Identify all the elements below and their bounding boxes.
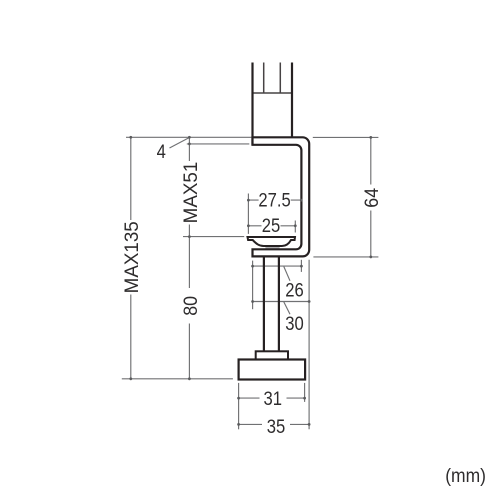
dimension line MAX51 / 80 [188, 137, 190, 378]
svg-text:25: 25 [262, 213, 280, 236]
foot step [256, 351, 288, 359]
dimension end dots [129, 136, 372, 426]
screw shaft [264, 255, 279, 352]
dimension line 27.5 [248, 199, 301, 201]
svg-text:(mm): (mm) [445, 464, 486, 486]
dimension extension line: foot bottom (left) [122, 378, 233, 380]
svg-text:MAX51: MAX51 [180, 162, 202, 224]
leader line for 30 [284, 302, 290, 314]
dimension line 31 [239, 397, 305, 399]
dimension extension line: foot left [238, 383, 240, 429]
pole inner detail lines [264, 63, 281, 94]
dimension extension line: clamp top surface (left) [126, 136, 252, 138]
dimension line MAX135 [130, 137, 132, 378]
svg-text:35: 35 [267, 415, 285, 438]
dimension extension line: foot right [304, 383, 306, 402]
dimension extension line: clamp top (right) [313, 136, 379, 138]
svg-text:30: 30 [285, 311, 303, 334]
svg-text:4: 4 [157, 140, 166, 163]
screw collar (gray block under pad) [265, 246, 279, 250]
dimension extension line: pad top surface [183, 236, 244, 238]
dimension line 35 [239, 423, 310, 425]
dimension line 30 [253, 301, 310, 303]
dimension line 26 [253, 265, 302, 267]
dimension extension line: spine outer surface [308, 260, 310, 430]
dimension extension line: spine inner surface [300, 260, 302, 272]
swivel pad [248, 237, 296, 246]
leader line for 4 [170, 138, 190, 149]
pole outer edges [253, 63, 293, 146]
foot base [239, 360, 306, 380]
svg-text:MAX135: MAX135 [122, 221, 144, 293]
svg-text:64: 64 [360, 188, 382, 208]
svg-text:80: 80 [179, 296, 201, 316]
svg-text:27.5: 27.5 [258, 188, 290, 211]
dimension extension line: bottom arm left end [252, 261, 254, 310]
dimension extension line: clamp bottom arm underside (right) [313, 256, 378, 258]
dimension extension line: clamp arm underside (4mm) [187, 143, 250, 145]
svg-text:31: 31 [264, 387, 282, 410]
svg-text:26: 26 [285, 278, 303, 301]
dimension line 25 [248, 225, 295, 227]
dimension line 64 [370, 137, 372, 257]
dimension extension line: pad right [294, 221, 296, 233]
dimension extension line: pad left [247, 194, 249, 234]
pole collar seam [253, 92, 293, 94]
leader line for 26 [284, 267, 290, 281]
clamp C-body [253, 137, 310, 256]
